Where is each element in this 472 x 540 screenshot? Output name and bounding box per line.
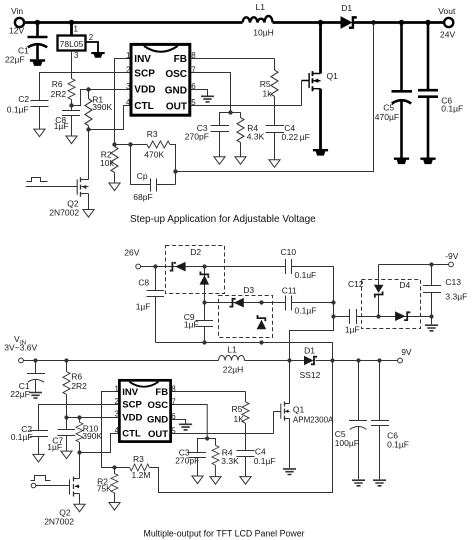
wire VDD [89,89,132,91]
ground C7 [61,451,72,459]
svg-text:4: 4 [126,98,131,107]
ground Q2 bottom [74,504,85,512]
node C9 bottom [202,340,206,344]
svg-text:R3: R3 [133,454,144,464]
junction 78L05 rail [69,20,74,25]
ground IC1 GND [201,96,214,102]
wire Q2 drain bottom [79,453,81,479]
resistor R4 bottom [207,439,215,446]
box D4 [362,280,421,329]
svg-text:OSC: OSC [148,400,169,411]
ground Q1 bottom [283,469,296,475]
svg-text:D3: D3 [243,285,254,295]
capacitor C1 bottom [27,361,45,392]
terminal Vout [444,18,453,27]
resistor R3 [147,141,170,148]
ground Q1 source [313,149,328,156]
svg-text:0.1µF: 0.1µF [11,432,33,442]
svg-text:100µF: 100µF [335,438,359,448]
svg-text:3.3µF: 3.3µF [445,291,467,301]
svg-text:78L05: 78L05 [60,39,84,49]
wire CTL bottom [80,434,120,453]
svg-text:C2: C2 [18,94,29,104]
svg-text:4.3K: 4.3K [247,132,265,142]
box D3 [219,296,273,338]
capacitor C2 bottom [30,431,48,455]
dashed dual-diode boxes [166,246,421,338]
svg-text:3V~3.6V: 3V~3.6V [4,343,37,353]
capacitor Cp [131,145,176,192]
wire CTL [89,106,132,130]
diode D4 vertical [374,285,384,293]
svg-text:-9V: -9V [445,251,459,261]
IC U1 [131,44,190,115]
resistor R2 [114,145,116,147]
diode D4 horizontal [395,311,406,321]
resistor R4 [231,113,241,118]
ground C5 bottom [352,480,365,486]
wire pump return [156,343,333,361]
svg-text:1: 1 [74,25,79,34]
node switch bottom [287,358,291,362]
svg-text:7: 7 [171,398,176,407]
wire L1 to D1 bottom [245,360,305,362]
junction dots thin, top circuit [69,87,232,173]
wire 26V row [141,266,286,268]
ground C3 bottom [192,476,203,484]
svg-text:SCP: SCP [134,68,155,79]
wire feedback bottom [149,361,332,493]
node R1 bottom junction [86,127,90,131]
svg-text:4: 4 [115,426,120,435]
svg-text:L1: L1 [227,345,237,355]
svg-text:10µH: 10µH [253,28,273,38]
junction C6 rail [425,20,430,25]
junction C1 rail [35,20,40,25]
capacitor C5 bottom [349,361,367,480]
wire OUT to Q1 gate bottom [171,412,274,434]
svg-text:SCP: SCP [122,400,142,411]
svg-text:1K: 1K [234,414,245,424]
wire rail to 78L05 [70,23,73,36]
svg-text:3.3K: 3.3K [221,456,239,466]
node A INV divider [112,142,116,146]
svg-text:C11: C11 [282,286,297,296]
svg-text:R3: R3 [147,129,158,139]
capacitor C12 [350,309,379,324]
wire node A to R3 [115,144,148,146]
node C13 top [429,262,433,266]
svg-text:8: 8 [171,385,176,394]
svg-text:D1: D1 [304,345,315,355]
svg-text:C5: C5 [383,103,394,113]
ground Q2 [83,210,94,218]
svg-text:12V: 12V [9,26,24,36]
wire VDD bottom [67,417,120,419]
wire FB to R5 [190,58,275,60]
svg-text:470µF: 470µF [375,112,399,122]
transistor Q1 source wire [319,89,322,149]
svg-text:2N7002: 2N7002 [44,516,74,526]
diode D1 bottom [304,356,314,365]
svg-text:Q1: Q1 [327,71,339,81]
node B feedback [173,169,177,173]
box D2 [166,246,225,294]
regulator 78L05 [58,36,86,51]
diode D3 vertical [257,320,267,330]
ground C1 bottom [29,393,42,399]
svg-text:OUT: OUT [166,102,187,113]
svg-text:CTL: CTL [122,429,141,440]
capacitor C6 bottom [371,361,389,480]
capacitor C10 [286,259,334,274]
resistor R6 [68,79,75,100]
svg-text:Q1: Q1 [293,405,305,415]
capacitor C8 bottom [147,267,165,343]
capacitor C13 [423,265,441,325]
wire Q2 source to ground [88,194,90,210]
svg-text:GND: GND [147,415,168,426]
resistor R3 bottom [115,467,130,469]
svg-text:2R2: 2R2 [71,381,87,391]
capacitor C6 [418,23,438,158]
node R6 bottom junction [69,103,73,107]
pulse input symbol bottom [31,476,51,481]
svg-text:22µH: 22µH [223,365,244,375]
svg-text:OUT: OUT [148,429,168,440]
svg-text:Multiple-output for TFT LCD Pa: Multiple-output for TFT LCD Panel Power [144,529,305,539]
ground C4 [269,160,280,168]
node 26V C8 [153,264,157,268]
wire 78L05 pin2 to ground [86,42,99,52]
node INV divider bottom [112,465,116,469]
svg-text:0.1µF: 0.1µF [295,306,317,316]
ground C6 [420,158,435,165]
svg-text:0.22 µF: 0.22 µF [282,132,310,142]
wire Q2 drain [88,130,90,180]
junction C5 rail [399,20,404,25]
ground C2 [34,129,45,137]
wire Q1 drain bottom [289,361,291,404]
transistor Q1 drain wire [319,23,322,74]
node D3 junction [259,300,263,304]
node D4 bottom [376,314,380,318]
svg-text:Step-up Application for Adjust: Step-up Application for Adjustable Volta… [130,214,316,225]
node C5 rail bottom [356,358,360,362]
capacitor C4 [266,126,285,160]
ground C13 [425,325,438,331]
node R6 rail bottom [64,358,68,362]
node R10 bottom junction [77,450,81,454]
wire INV [115,59,132,145]
wire GND pin to earth [190,90,208,96]
svg-text:INV: INV [122,387,139,398]
node C1 rail bottom [33,358,37,362]
svg-text:22µF: 22µF [5,54,25,64]
svg-text:6: 6 [171,412,176,421]
svg-text:GND: GND [165,85,187,96]
diode D2 vertical [200,275,210,284]
svg-text:CTL: CTL [134,101,153,112]
svg-text:24V: 24V [440,30,455,40]
svg-text:SS12: SS12 [300,370,321,380]
node R3 Cp left [128,142,132,146]
resistor R1 [88,90,90,99]
node OSC RC [228,110,232,114]
svg-text:1µF: 1µF [54,121,69,131]
wire OUT to Q1 gate [190,81,302,106]
wire INV bottom [102,392,120,468]
svg-text:5: 5 [171,427,176,436]
wire C10 down leg [290,267,334,361]
wire FB to R5 bottom [171,391,246,393]
svg-text:75K: 75K [97,483,112,493]
svg-text:1µF: 1µF [47,442,62,452]
svg-text:INV: INV [134,54,151,65]
svg-text:1µF: 1µF [184,319,199,329]
svg-text:1µF: 1µF [345,325,360,335]
transistor Q1 bottom [284,402,286,421]
svg-text:390K: 390K [92,102,112,112]
node D3 bottom [259,340,263,344]
ground R2 bottom [109,503,120,511]
resistor R6 bottom [66,361,68,372]
ground 78L05 pin2 [91,52,104,58]
wire top rail Vin to L1 [25,21,243,24]
svg-text:R5: R5 [260,79,271,89]
ground IC2 GND [179,424,192,430]
node OSC RC bottom [205,436,209,440]
resistor R5 bottom [245,392,247,402]
resistor R10 [79,418,81,423]
terminal 9V [398,358,403,363]
svg-text:5: 5 [191,98,196,107]
capacitor C11 [286,296,334,311]
svg-text:Cp: Cp [137,171,148,181]
ground C3 [214,157,225,165]
capacitor C1 [28,23,48,60]
node D2 junction [202,264,206,268]
svg-text:68pF: 68pF [133,192,152,202]
svg-text:R6: R6 [52,79,63,89]
svg-text:10k: 10k [100,158,114,168]
transistor Q1 [302,71,321,91]
svg-text:0.1µF: 0.1µF [254,456,276,466]
svg-text:APM2300A: APM2300A [293,416,334,425]
svg-text:3: 3 [126,82,131,91]
svg-text:D1: D1 [341,3,352,13]
terminal VIN bottom [19,358,24,363]
capacitor C3 [211,113,231,157]
wire Q2 gate bottom [36,485,70,487]
svg-text:L1: L1 [256,2,266,12]
ground C8 [66,136,77,144]
svg-text:270pF: 270pF [175,455,199,465]
node R10 VDD junction [77,415,81,419]
IC U2 [119,380,170,441]
wire GND pin bottom [171,420,186,424]
capacitor C7 [58,418,76,452]
svg-text:22µF: 22µF [10,389,30,399]
junction switch node rail [318,20,323,25]
svg-text:1µF: 1µF [136,301,151,311]
inductor L1 [243,16,273,23]
wire SCP to C2 [40,73,132,101]
svg-text:390K: 390K [82,431,102,441]
ground C4 bottom [240,477,251,485]
wire feedback to output [176,23,374,172]
svg-text:R5: R5 [232,404,243,414]
diode D2 horizontal [175,262,186,272]
capacitor C4 bottom [237,451,255,477]
node C12 left [331,314,335,318]
svg-text:0.1µF: 0.1µF [441,104,463,114]
svg-text:C10: C10 [281,247,297,257]
svg-text:C13: C13 [445,277,461,287]
wire SCP to C2 bottom [39,405,120,431]
svg-text:Vout: Vout [438,6,456,16]
svg-text:9V: 9V [401,347,412,357]
svg-text:2: 2 [126,65,131,74]
svg-text:6: 6 [191,82,196,91]
ground R4 [235,157,246,165]
inductor L1 bottom [219,356,245,361]
wire bottom rail Vin to L1 [24,360,219,362]
svg-text:8: 8 [191,51,196,60]
wire D1 to 9V [316,360,398,362]
svg-text:C8: C8 [138,278,149,288]
svg-text:1: 1 [115,385,120,394]
svg-text:Vin: Vin [11,6,23,16]
ground C1 [30,59,45,66]
svg-text:0.1µF: 0.1µF [387,440,409,450]
wire OSC [190,73,231,113]
wire R6 bottom to VDD node [72,90,89,106]
terminal -9V [449,262,454,267]
terminal pulse input [31,483,36,488]
svg-text:26V: 26V [124,248,139,258]
capacitor C5 [392,23,413,158]
wire -9V row [379,265,449,286]
svg-text:2N7002: 2N7002 [49,208,79,218]
ground R4 bottom [210,477,221,485]
node D1 cathode bottom [330,358,334,362]
wire D4 output row [379,316,432,318]
arrow Q2 bottom [75,484,79,488]
svg-text:D2: D2 [190,247,201,257]
junction dots bottom circuit [33,262,433,469]
svg-text:470K: 470K [144,149,164,159]
ground C5 [394,158,409,165]
svg-text:1k: 1k [263,88,273,98]
pulse input symbol [27,178,48,182]
resistor R5 [274,59,276,71]
svg-text:2: 2 [89,33,94,42]
svg-text:VDD: VDD [122,412,142,423]
wire D1 to Vout [354,21,444,24]
diode D3 horizontal [234,298,244,308]
ground R2 [109,183,120,191]
terminal 26V [136,264,141,269]
junction feedback rail [371,20,376,25]
svg-text:0.1uF: 0.1uF [295,270,317,280]
capacitor C8 [62,106,80,137]
node R6 C7 junction [64,415,68,419]
svg-text:1: 1 [126,51,131,60]
wire Q1 source to ground bottom [289,419,291,468]
svg-text:VDD: VDD [134,85,155,96]
arrow Q1 bottom [285,409,289,412]
wire C11 row [205,302,286,304]
svg-text:7: 7 [191,65,196,74]
svg-text:D4: D4 [399,280,410,290]
svg-text:2R2: 2R2 [51,89,67,99]
transistor Q2 bottom [73,477,75,497]
svg-text:3: 3 [115,410,120,419]
wire Q2 gate [26,186,77,188]
svg-text:FB: FB [174,54,187,65]
svg-text:C12: C12 [348,279,364,289]
wire OSC bottom [171,405,208,439]
node C13 bottom [429,314,433,318]
wire 78L05 pin3 to R6 [71,51,73,79]
capacitor C3 bottom [189,439,208,477]
resistor R2 bottom [114,468,116,474]
terminal Vin [15,18,24,27]
wire D2 vertical branch [204,267,206,321]
node C6 rail bottom [377,358,381,362]
transistor Q2 [26,130,94,218]
node C11 left [202,300,206,304]
node VDD junction [86,87,90,91]
ground C6 bottom [373,480,386,486]
svg-text:OSC: OSC [165,69,187,80]
capacitor C9 [196,321,214,343]
svg-text:3: 3 [74,51,79,60]
wire L1 to D1 [273,21,341,24]
wire Q2 source bottom [79,494,81,505]
diode D1 [341,16,353,29]
svg-text:FB: FB [155,387,168,398]
svg-text:0.1µF: 0.1µF [7,105,29,115]
wire C12 row [334,316,350,318]
capacitor C2 [31,101,49,130]
wire D4 vertical lower [378,294,380,317]
svg-text:2: 2 [115,397,120,406]
node C10 C11 right [331,300,335,304]
ground C2 bottom [33,454,44,462]
svg-text:270pF: 270pF [185,131,209,141]
svg-text:1.2M: 1.2M [132,470,151,480]
